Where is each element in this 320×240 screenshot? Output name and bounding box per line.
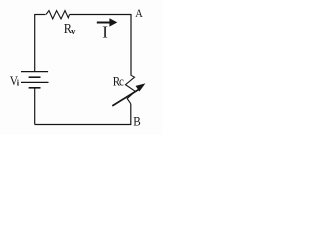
svg-text:c: c — [119, 74, 124, 89]
battery Vi plate short bottom — [29, 87, 41, 89]
rheostat Rc zigzag — [126, 75, 136, 104]
svg-text:A: A — [135, 7, 143, 20]
svg-text:B: B — [133, 114, 141, 129]
resistor Rr zigzag — [46, 11, 70, 19]
battery Vi plate long top — [21, 71, 48, 73]
wire top-left segment — [35, 14, 46, 16]
wire left upper segment — [34, 14, 36, 72]
wire right lower segment — [130, 104, 132, 125]
rheostat arrow shaft — [112, 90, 138, 106]
svg-text:I: I — [102, 23, 108, 42]
wire right upper segment — [130, 14, 132, 76]
wire bottom segment — [35, 124, 132, 126]
wire left lower segment — [34, 88, 36, 125]
wire top-right segment — [70, 14, 132, 16]
battery Vi plate long middle2 — [21, 81, 49, 83]
current arrow shaft — [97, 22, 110, 24]
rheostat arrow head — [136, 83, 146, 91]
battery Vi plate short middle1 — [29, 76, 41, 78]
svg-text:v: v — [71, 26, 76, 36]
current arrow head — [109, 18, 117, 26]
